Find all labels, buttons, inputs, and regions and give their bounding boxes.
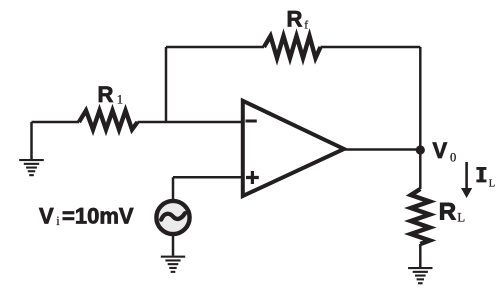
wire R1 to inverting input xyxy=(138,121,244,124)
label Vi = 10 mV xyxy=(39,204,134,229)
source sine symbol xyxy=(161,213,185,219)
wire RL to ground xyxy=(419,244,422,267)
wire plus input horizontal xyxy=(173,176,243,179)
wire feedback top left xyxy=(166,46,264,49)
wire input left horizontal xyxy=(32,121,80,124)
svg-text:1: 1 xyxy=(117,93,123,107)
svg-text:R: R xyxy=(98,82,114,107)
svg-text:f: f xyxy=(304,19,308,31)
label Rf xyxy=(287,7,309,32)
op-amp plus sign xyxy=(246,171,259,184)
wire feedback vertical xyxy=(165,47,168,122)
svg-text:L: L xyxy=(489,179,495,190)
wire right vertical to output node xyxy=(419,47,422,150)
node V0 junction dot xyxy=(416,145,425,154)
svg-text:0: 0 xyxy=(450,151,456,165)
label RL xyxy=(439,199,466,226)
wire output xyxy=(344,148,420,151)
svg-text:i: i xyxy=(56,214,60,228)
label R1 xyxy=(98,82,124,107)
wire source to ground xyxy=(172,234,175,256)
svg-text:R: R xyxy=(439,199,456,226)
resistor R1 xyxy=(79,111,138,130)
svg-text:L: L xyxy=(457,210,465,225)
op-amp minus sign xyxy=(246,120,257,123)
svg-text:V: V xyxy=(433,138,448,163)
ground right xyxy=(408,267,432,284)
svg-text:R: R xyxy=(287,7,303,32)
wire plus input vertical to source xyxy=(172,177,175,200)
svg-text:V: V xyxy=(39,204,54,229)
wire left vertical to ground xyxy=(30,122,33,159)
label IL xyxy=(476,167,495,190)
svg-text:=10mV: =10mV xyxy=(62,204,134,229)
op-amp U1 xyxy=(243,101,344,196)
source Vi circle xyxy=(156,201,189,234)
resistor Rf xyxy=(264,36,321,58)
resistor RL xyxy=(411,189,430,244)
current arrow IL xyxy=(465,162,468,189)
wire feedback top right xyxy=(321,46,421,49)
ground left xyxy=(19,159,44,176)
ground source xyxy=(161,256,185,273)
label V0 xyxy=(433,138,457,165)
wire node to RL xyxy=(419,150,422,189)
